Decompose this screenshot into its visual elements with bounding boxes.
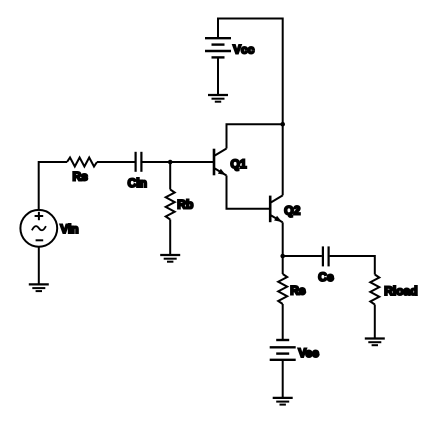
- wire input: left vertical and to Rs: [39, 162, 67, 210]
- wire Q1 emitter to Q2 base: [227, 176, 270, 209]
- source Vin: [20, 210, 57, 247]
- svg-text:Rb: Rb: [177, 198, 193, 212]
- wire Rb to ground: [169, 220, 171, 256]
- wire Rload to ground: [374, 305, 376, 339]
- svg-text:Rload: Rload: [384, 284, 417, 298]
- ground (below Rb): [160, 255, 180, 262]
- capacitor Cin: [136, 152, 142, 172]
- svg-text:Vee: Vee: [298, 346, 319, 360]
- transistor Q2: [270, 195, 283, 222]
- wire Vcc battery to ground: [217, 57, 219, 95]
- svg-text:Re: Re: [290, 284, 306, 298]
- svg-text:Q2: Q2: [284, 204, 300, 218]
- wire Ce to Rload: [330, 256, 375, 275]
- ground (below Vee): [273, 398, 293, 405]
- svg-text:Vcc: Vcc: [233, 42, 255, 56]
- svg-text:Ce: Ce: [318, 270, 334, 284]
- wire node to Ce: [283, 255, 322, 257]
- resistor Re: [278, 274, 287, 304]
- capacitor Ce: [323, 246, 329, 266]
- wire Rs to Cin: [97, 161, 135, 163]
- wire junction to Rb: [169, 162, 171, 190]
- ground (below Vcc): [208, 95, 228, 102]
- wire Re to Vee: [282, 304, 284, 340]
- transistor Q1: [214, 149, 227, 176]
- ground (below Rload): [365, 339, 385, 346]
- wire Q1 collector to rail: [227, 124, 283, 148]
- wire top rail from Vcc top to right rail down to Q2 collector: [218, 19, 283, 196]
- wire Vin to ground: [38, 247, 40, 285]
- svg-text:Q1: Q1: [231, 157, 247, 171]
- battery Vee: [270, 340, 296, 360]
- svg-text:Vin: Vin: [60, 222, 78, 236]
- svg-text:Rs: Rs: [73, 169, 89, 183]
- resistor Rb: [166, 190, 175, 220]
- wire Cin to Q1 base: [142, 161, 213, 163]
- resistor Rs: [67, 158, 97, 167]
- node junction dot (emitter node): [280, 254, 285, 259]
- svg-text:Cin: Cin: [128, 176, 147, 190]
- ground (below Vin): [29, 284, 49, 291]
- wire Q2 emitter down to node: [282, 222, 284, 274]
- battery Vcc: [205, 38, 231, 57]
- node junction dot (rail): [280, 122, 285, 127]
- node junction dot (Cin/Rb): [168, 160, 173, 165]
- wire Vee to ground: [282, 360, 284, 398]
- resistor Rload: [370, 275, 379, 305]
